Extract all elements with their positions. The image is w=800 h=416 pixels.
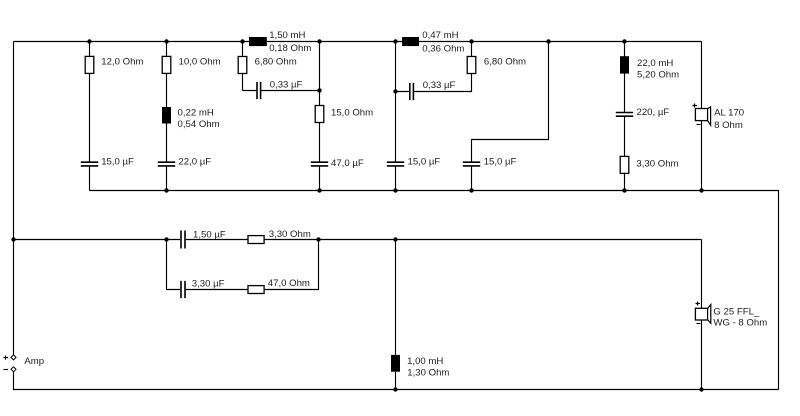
- svg-text:220, µF: 220, µF: [637, 107, 670, 118]
- svg-text:15,0 µF: 15,0 µF: [408, 157, 441, 168]
- svg-text:0,33 µF: 0,33 µF: [270, 80, 303, 91]
- svg-text:6,80 Ohm: 6,80 Ohm: [484, 57, 526, 68]
- svg-text:6,80 Ohm: 6,80 Ohm: [255, 57, 297, 68]
- svg-text:15,0 µF: 15,0 µF: [484, 157, 517, 168]
- svg-text:0,18 Ohm: 0,18 Ohm: [269, 43, 311, 54]
- svg-text:G 25 FFL_: G 25 FFL_: [713, 307, 760, 318]
- svg-text:22,0 µF: 22,0 µF: [178, 157, 211, 168]
- svg-text:AL 170: AL 170: [714, 107, 744, 118]
- svg-text:12,0 Ohm: 12,0 Ohm: [101, 57, 143, 68]
- svg-text:3,30 Ohm: 3,30 Ohm: [269, 229, 311, 240]
- svg-text:5,20 Ohm: 5,20 Ohm: [637, 70, 679, 81]
- svg-text:22,0 mH: 22,0 mH: [637, 58, 673, 69]
- svg-text:8 Ohm: 8 Ohm: [714, 120, 743, 131]
- svg-text:0,54 Ohm: 0,54 Ohm: [178, 119, 220, 130]
- svg-text:Amp: Amp: [24, 356, 44, 367]
- svg-text:1,50 µF: 1,50 µF: [193, 230, 226, 241]
- svg-text:15,0 Ohm: 15,0 Ohm: [331, 108, 373, 119]
- svg-text:3,30 Ohm: 3,30 Ohm: [636, 158, 678, 169]
- svg-text:47,0 Ohm: 47,0 Ohm: [268, 278, 310, 289]
- svg-text:WG - 8 Ohm: WG - 8 Ohm: [713, 318, 767, 329]
- svg-text:15,0 µF: 15,0 µF: [101, 157, 134, 168]
- svg-text:10,0 Ohm: 10,0 Ohm: [179, 57, 221, 68]
- svg-text:0,36 Ohm: 0,36 Ohm: [422, 44, 464, 55]
- svg-text:47,0 µF: 47,0 µF: [331, 158, 364, 169]
- svg-text:1,00 mH: 1,00 mH: [407, 356, 443, 367]
- svg-text:3,30 µF: 3,30 µF: [192, 279, 225, 290]
- svg-text:0,47 mH: 0,47 mH: [422, 30, 458, 41]
- svg-text:1,30 Ohm: 1,30 Ohm: [407, 368, 449, 379]
- svg-text:1,50 mH: 1,50 mH: [269, 30, 305, 41]
- svg-text:0,22 mH: 0,22 mH: [178, 107, 214, 118]
- svg-text:0,33 µF: 0,33 µF: [423, 80, 456, 91]
